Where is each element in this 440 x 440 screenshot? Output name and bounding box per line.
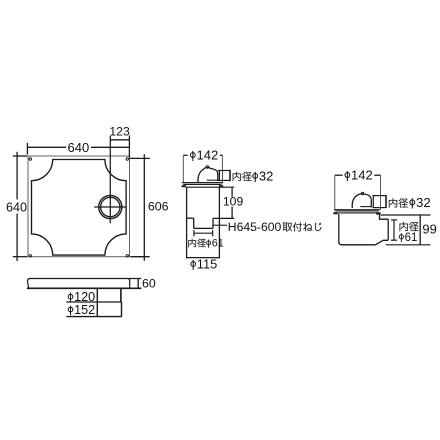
svg-text:142: 142 bbox=[197, 148, 219, 163]
middle trap: dome knob bbox=[206, 166, 209, 169]
side view: pan top edge / 60 extension bbox=[30, 278, 142, 280]
text phi152 bbox=[68, 306, 73, 316]
text phi120 bbox=[68, 293, 73, 303]
text phi115 bbox=[191, 260, 196, 270]
svg-text:32: 32 bbox=[259, 168, 273, 183]
svg-text:109: 109 bbox=[223, 195, 244, 209]
plan view: drain inner circle bbox=[101, 197, 120, 216]
svg-text:99: 99 bbox=[422, 222, 436, 237]
dimension inner-dia 61 (right) bbox=[393, 220, 395, 240]
socket end cap / dimension bracket inner-dia 32 (middle) bbox=[229, 170, 231, 182]
middle trap: body left edge + phi115 extension bbox=[186, 187, 188, 258]
socket end cap / dimension bracket inner-dia 32 (right) bbox=[385, 195, 387, 208]
middle trap: bottom step left bbox=[187, 217, 194, 219]
plan view: drain outer circle bbox=[99, 195, 122, 218]
label 内径 / φ61 stacked (right) bbox=[400, 222, 419, 231]
svg-text:H645-600: H645-600 bbox=[228, 220, 282, 234]
middle trap: outlet tube phi61 bbox=[193, 218, 195, 228]
plan view: inner rim outline with corner arcs bbox=[32, 160, 127, 256]
right trap: dome knob bbox=[361, 192, 364, 195]
phi152 leader underline / spigot bottom bbox=[66, 316, 121, 318]
label 内径φ32 (right) bbox=[389, 198, 408, 207]
text phi142 middle bbox=[190, 151, 195, 161]
plan view: washing machine pan outer square 640x640 bbox=[28, 156, 130, 257]
side view: drain spigot bbox=[96, 288, 98, 316]
dimension 99 bbox=[381, 214, 431, 216]
plan view: corner screw hole bbox=[126, 158, 128, 160]
plan view: drain centerline vertical / 123 extension bbox=[109, 136, 111, 224]
phi120 leader underline / spigot step bbox=[66, 301, 121, 303]
plan view: drain crosshair horizontal bbox=[94, 206, 126, 208]
text phi142 right bbox=[345, 171, 350, 181]
svg-text:115: 115 bbox=[197, 256, 217, 271]
phi142 left extension (right) bbox=[334, 175, 336, 210]
dimension 640 top bbox=[27, 146, 66, 148]
dimension phi142 line (right) bbox=[335, 174, 343, 176]
dimension 606 right bbox=[143, 154, 145, 260]
svg-text:61: 61 bbox=[405, 232, 418, 244]
dimension 60 bracket bbox=[137, 279, 139, 289]
dimension 123 line bbox=[110, 139, 129, 141]
side view: pan bottom edge / 60 extension bbox=[27, 287, 142, 289]
phi142 right extension (right) bbox=[380, 175, 382, 210]
leader for H645-600 mounting screw bbox=[213, 224, 227, 226]
svg-text:142: 142 bbox=[351, 168, 373, 183]
label 内径φ32 (middle) bbox=[233, 172, 252, 181]
dimension inner-dia 61 (middle) bbox=[194, 232, 213, 234]
phi142 right extension (middle) bbox=[221, 155, 223, 183]
middle trap: body right edge + phi115 extension bbox=[218, 187, 220, 258]
phi142 left extension (middle) bbox=[182, 155, 184, 182]
side view: pan left edge bbox=[28, 279, 31, 289]
middle trap: flange bbox=[182, 182, 223, 184]
right trap: flange bbox=[334, 209, 380, 211]
middle trap: inlet socket phi32 bbox=[218, 170, 231, 172]
right trap: outlet end bbox=[387, 219, 389, 240]
side view: pan right edge bbox=[128, 279, 130, 289]
svg-text:123: 123 bbox=[109, 124, 130, 138]
middle trap: bottom step right + 109 extension bbox=[213, 217, 234, 219]
right trap: inlet socket phi32 bbox=[373, 195, 387, 197]
middle trap: dome base inner line bbox=[207, 179, 218, 181]
svg-text:640: 640 bbox=[68, 140, 90, 155]
right trap: outlet step top bbox=[376, 214, 388, 219]
label 内径φ61 (middle) bbox=[188, 239, 206, 248]
right trap: dome base inner line bbox=[360, 206, 371, 208]
plan view: corner screw hole bbox=[29, 255, 31, 257]
plan view: corner screw hole bbox=[126, 255, 128, 257]
svg-text:60: 60 bbox=[142, 276, 156, 290]
svg-text:32: 32 bbox=[416, 195, 431, 210]
dimension 109 bbox=[231, 187, 233, 197]
middle trap: dome cap outline bbox=[198, 167, 218, 182]
svg-text:120: 120 bbox=[74, 290, 95, 304]
dimension phi115 line bbox=[187, 257, 220, 259]
dimension 640 left bbox=[16, 152, 18, 200]
svg-text:606: 606 bbox=[148, 199, 169, 213]
right trap: body bbox=[339, 214, 388, 245]
dimension phi142 line (middle) bbox=[183, 154, 187, 156]
right trap: dome cap outline bbox=[352, 194, 371, 208]
svg-text:61: 61 bbox=[212, 238, 224, 250]
middle trap: body shoulder / 109 top extension bbox=[186, 186, 235, 188]
plan view: corner screw hole bbox=[29, 158, 31, 160]
svg-text:152: 152 bbox=[74, 303, 95, 317]
svg-text:640: 640 bbox=[6, 200, 27, 214]
